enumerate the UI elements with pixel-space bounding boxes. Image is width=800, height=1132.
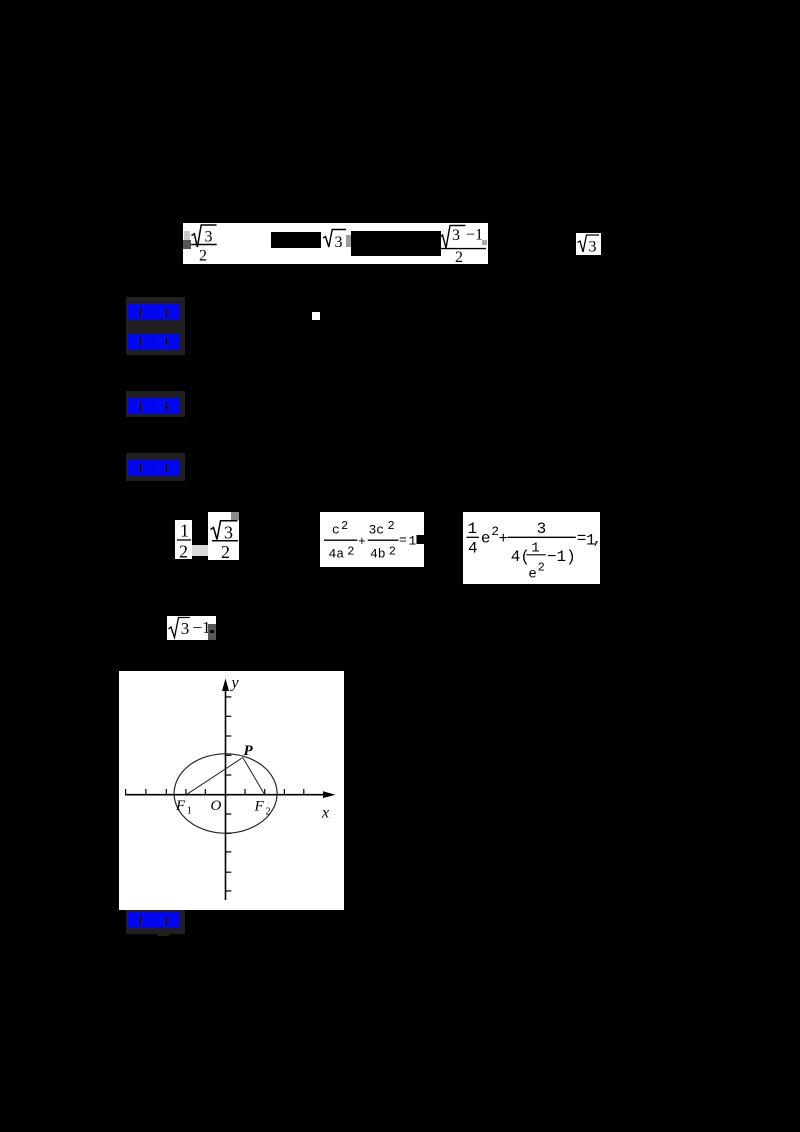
svg-text:3: 3: [452, 227, 460, 244]
svg-text:2: 2: [455, 249, 463, 264]
svg-text:2: 2: [179, 541, 188, 559]
svg-text:4a: 4a: [329, 547, 345, 562]
svg-text:2: 2: [388, 519, 395, 533]
svg-text:1: 1: [187, 806, 192, 817]
svg-text:2: 2: [266, 807, 271, 818]
svg-text:2: 2: [538, 560, 545, 574]
svg-text:3: 3: [224, 522, 233, 542]
svg-text:+: +: [358, 534, 366, 549]
svg-text:,: ,: [593, 530, 601, 548]
svg-text:+: +: [499, 530, 509, 548]
svg-text:y: y: [230, 675, 240, 692]
svg-text:=: =: [399, 533, 407, 548]
svg-text:e: e: [528, 567, 536, 583]
svg-text:3: 3: [537, 520, 547, 538]
svg-text:4(: 4(: [511, 548, 530, 566]
svg-text:4: 4: [468, 540, 478, 558]
svg-text:3c: 3c: [369, 523, 385, 538]
svg-text:2: 2: [221, 542, 230, 560]
svg-text:2: 2: [347, 544, 354, 558]
svg-text:3: 3: [181, 619, 190, 638]
svg-text:1: 1: [468, 520, 478, 538]
svg-text:P: P: [244, 743, 254, 759]
svg-text:2: 2: [199, 248, 207, 265]
svg-text:c: c: [332, 523, 340, 538]
svg-text:3: 3: [205, 229, 213, 246]
svg-text:O: O: [211, 798, 222, 814]
svg-text:3: 3: [335, 234, 343, 251]
svg-text:e: e: [481, 529, 491, 547]
svg-text:F: F: [254, 799, 265, 815]
svg-text:−1: −1: [466, 227, 483, 244]
svg-text:2: 2: [389, 544, 396, 558]
svg-text:1: 1: [409, 534, 417, 549]
svg-text:=: =: [577, 530, 587, 548]
svg-text:−1): −1): [547, 548, 576, 566]
svg-text:1: 1: [180, 520, 189, 540]
svg-text:4b: 4b: [370, 547, 386, 562]
svg-text:2: 2: [341, 519, 348, 533]
svg-text:3: 3: [589, 239, 597, 256]
svg-text:x: x: [321, 805, 329, 822]
svg-text:F: F: [175, 798, 186, 814]
